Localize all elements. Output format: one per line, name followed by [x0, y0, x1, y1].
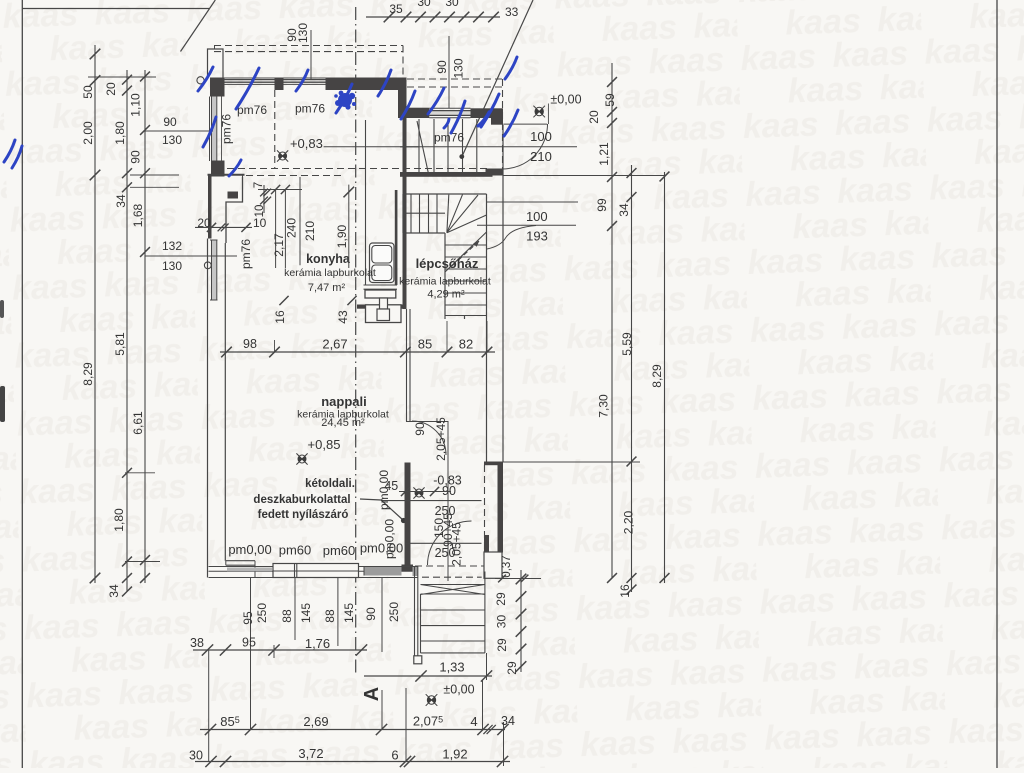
svg-text:59: 59 — [603, 93, 617, 107]
svg-text:4: 4 — [470, 714, 477, 729]
svg-text:250: 250 — [387, 602, 401, 622]
svg-text:145: 145 — [299, 603, 313, 623]
svg-text:pm0,00: pm0,00 — [228, 542, 271, 557]
svg-text:30: 30 — [495, 615, 509, 629]
svg-text:4,29 m²: 4,29 m² — [427, 289, 465, 301]
svg-text:35: 35 — [389, 2, 403, 16]
svg-text:100: 100 — [530, 129, 552, 144]
svg-text:+0,85: +0,85 — [308, 437, 341, 452]
svg-text:6,61: 6,61 — [131, 411, 145, 435]
svg-text:88: 88 — [280, 609, 294, 623]
svg-text:34: 34 — [107, 584, 121, 598]
svg-text:1,21: 1,21 — [597, 142, 611, 166]
svg-text:193: 193 — [526, 229, 548, 244]
svg-text:pm76: pm76 — [237, 103, 267, 117]
svg-text:pm60: pm60 — [323, 543, 356, 558]
svg-text:250: 250 — [435, 546, 456, 560]
svg-text:3,72: 3,72 — [298, 746, 323, 761]
svg-text:98: 98 — [243, 337, 257, 351]
svg-text:33: 33 — [505, 5, 519, 19]
svg-text:34: 34 — [617, 203, 631, 217]
svg-text:50: 50 — [81, 85, 95, 99]
svg-text:130: 130 — [162, 259, 182, 273]
svg-text:2,05+45: 2,05+45 — [434, 417, 448, 461]
svg-text:5,81: 5,81 — [113, 332, 127, 356]
svg-text:pm60: pm60 — [279, 543, 312, 558]
svg-text:7: 7 — [253, 182, 265, 188]
svg-text:6: 6 — [391, 748, 398, 763]
svg-text:132: 132 — [162, 239, 182, 253]
svg-text:100: 100 — [526, 209, 548, 224]
svg-text:2,00: 2,00 — [81, 121, 95, 145]
svg-text:99: 99 — [595, 198, 609, 212]
svg-text:pm76: pm76 — [295, 102, 325, 116]
svg-text:90: 90 — [129, 150, 143, 164]
svg-text:43: 43 — [336, 310, 350, 324]
svg-text:82: 82 — [459, 337, 473, 352]
svg-text:1,68: 1,68 — [131, 203, 145, 227]
svg-text:90: 90 — [435, 60, 449, 74]
svg-text:130: 130 — [296, 23, 310, 43]
svg-text:1,76: 1,76 — [305, 636, 330, 651]
svg-text:1,80: 1,80 — [113, 121, 127, 145]
svg-text:pm76: pm76 — [220, 114, 234, 144]
svg-text:pm76: pm76 — [239, 239, 253, 269]
svg-text:1,90: 1,90 — [335, 224, 349, 248]
svg-text:30: 30 — [417, 0, 431, 9]
svg-text:95: 95 — [241, 611, 255, 625]
svg-text:fedett nyílászáró: fedett nyílászáró — [258, 509, 349, 521]
svg-text:lépcsőház: lépcsőház — [416, 256, 479, 271]
svg-text:20: 20 — [587, 110, 601, 124]
svg-text:pm0,00: pm0,00 — [377, 470, 391, 510]
svg-text:2,67: 2,67 — [322, 337, 347, 352]
svg-text:29: 29 — [495, 638, 509, 652]
svg-text:pm0,00: pm0,00 — [360, 541, 403, 556]
svg-text:210: 210 — [530, 149, 552, 164]
svg-text:10: 10 — [254, 205, 266, 218]
svg-text:130: 130 — [162, 133, 182, 147]
svg-text:kétoldali.: kétoldali. — [305, 478, 355, 490]
svg-text:29: 29 — [494, 592, 508, 606]
svg-text:240: 240 — [285, 218, 299, 238]
svg-text:16: 16 — [273, 310, 287, 324]
svg-text:29: 29 — [505, 661, 519, 675]
svg-text:±0,00: ±0,00 — [550, 93, 581, 107]
svg-text:95: 95 — [242, 636, 256, 650]
svg-text:kerámia lapburkolat: kerámia lapburkolat — [284, 267, 376, 279]
svg-text:+0,83: +0,83 — [290, 136, 323, 151]
svg-text:250: 250 — [255, 603, 269, 623]
svg-text:130: 130 — [452, 58, 466, 78]
svg-text:kerámia lapburkolat: kerámia lapburkolat — [399, 276, 491, 288]
svg-text:145: 145 — [342, 603, 356, 623]
svg-text:0,37: 0,37 — [501, 555, 513, 577]
svg-text:38: 38 — [190, 636, 204, 650]
svg-text:1,92: 1,92 — [442, 747, 467, 762]
svg-text:2,20: 2,20 — [622, 510, 636, 534]
svg-text:34: 34 — [114, 194, 128, 208]
svg-text:1,33: 1,33 — [439, 660, 464, 675]
svg-text:konyha: konyha — [306, 252, 351, 266]
svg-text:88: 88 — [323, 609, 337, 623]
svg-text:24,45 m²: 24,45 m² — [321, 417, 365, 429]
svg-text:±0,00: ±0,00 — [443, 683, 474, 697]
svg-text:30: 30 — [445, 0, 459, 9]
svg-text:1,10: 1,10 — [129, 93, 143, 117]
svg-text:A: A — [361, 687, 383, 701]
svg-text:210: 210 — [303, 221, 317, 241]
svg-text:pm76: pm76 — [434, 131, 464, 145]
svg-text:34: 34 — [501, 714, 515, 728]
svg-text:7,30: 7,30 — [597, 394, 611, 418]
svg-text:90: 90 — [163, 115, 177, 129]
svg-text:1,80: 1,80 — [112, 508, 126, 532]
svg-text:2,69: 2,69 — [303, 714, 328, 729]
svg-text:8,29: 8,29 — [650, 364, 664, 388]
svg-text:deszkaburkolattal: deszkaburkolattal — [253, 494, 350, 506]
svg-text:7,47 m²: 7,47 m² — [308, 282, 346, 294]
svg-text:30: 30 — [189, 749, 203, 763]
svg-text:90: 90 — [364, 607, 378, 621]
svg-text:85: 85 — [418, 337, 432, 352]
svg-text:20: 20 — [104, 82, 118, 96]
svg-text:nappali: nappali — [321, 394, 367, 409]
svg-text:90: 90 — [413, 422, 427, 436]
svg-text:5,59: 5,59 — [620, 332, 634, 356]
svg-text:16: 16 — [618, 584, 632, 598]
svg-text:8,29: 8,29 — [81, 362, 95, 386]
